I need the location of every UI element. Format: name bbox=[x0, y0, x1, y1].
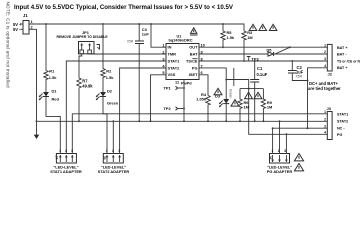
wire TMR net bbox=[90, 53, 166, 55]
wire J6 pin2 from bus bbox=[279, 121, 281, 153]
resistor R7 bbox=[77, 54, 93, 122]
connector J3 bbox=[324, 106, 348, 140]
capacitor C2 bbox=[288, 60, 309, 82]
wire STAT2 net bbox=[120, 68, 166, 154]
svg-text:1M: 1M bbox=[247, 35, 252, 40]
svg-text:1: 1 bbox=[271, 149, 273, 153]
wire VSS net bbox=[151, 75, 167, 122]
wire PwPd to bus bbox=[183, 80, 185, 122]
svg-text:3: 3 bbox=[324, 124, 326, 128]
svg-text:R2: R2 bbox=[106, 68, 112, 73]
svg-text:X5R: X5R bbox=[127, 39, 134, 43]
svg-text:1.05k: 1.05k bbox=[196, 96, 207, 101]
svg-text:PG: PG bbox=[192, 65, 198, 70]
svg-text:5V -: 5V - bbox=[13, 27, 21, 32]
svg-text:3: 3 bbox=[324, 57, 326, 61]
svg-text:Input 4.5V to 5.5VDC Typical,: Input 4.5V to 5.5VDC Typical, Consider T… bbox=[14, 4, 234, 11]
svg-text:R1: R1 bbox=[49, 68, 55, 73]
svg-text:STAT2: STAT2 bbox=[168, 65, 181, 70]
svg-text:PG ADAPTER: PG ADAPTER bbox=[267, 169, 293, 174]
header J4 bbox=[50, 149, 82, 174]
svg-text:1: 1 bbox=[59, 149, 61, 153]
ground bbox=[34, 121, 40, 139]
resistor R6 bbox=[238, 89, 250, 122]
svg-text:J5: J5 bbox=[102, 156, 106, 160]
svg-text:3: 3 bbox=[118, 149, 120, 153]
svg-text:bq2406xDRC: bq2406xDRC bbox=[169, 38, 193, 43]
svg-text:D5: D5 bbox=[267, 47, 273, 52]
svg-text:J3: J3 bbox=[327, 106, 332, 111]
svg-text:VSS: VSS bbox=[168, 72, 176, 77]
svg-text:1: 1 bbox=[324, 110, 326, 114]
svg-text:BAT +: BAT + bbox=[337, 66, 347, 70]
svg-text:D1: D1 bbox=[52, 89, 58, 94]
resistor R2 bbox=[101, 23, 114, 92]
wire ground bus bbox=[36, 120, 328, 122]
svg-text:3: 3 bbox=[71, 149, 73, 153]
wire D1 to J4 pin1 bbox=[46, 97, 60, 154]
svg-text:3: 3 bbox=[284, 149, 286, 153]
svg-text:2: 2 bbox=[112, 149, 114, 153]
svg-text:NOTE: C1 is optional and not i: NOTE: C1 is optional and not installed bbox=[6, 2, 11, 88]
wire STAT1 net bbox=[66, 61, 166, 154]
LED D3 bbox=[215, 80, 232, 122]
wire R6 R9 top link bbox=[240, 88, 263, 90]
capacitor C1 bbox=[250, 61, 267, 121]
svg-text:D3: D3 bbox=[215, 93, 221, 98]
resistor R5 bbox=[221, 24, 235, 47]
diode D5 bbox=[267, 46, 292, 56]
svg-text:4: 4 bbox=[324, 64, 326, 68]
svg-text:ISET: ISET bbox=[189, 72, 198, 77]
svg-text:C1: C1 bbox=[257, 66, 263, 71]
svg-text:J1: J1 bbox=[23, 13, 28, 18]
svg-text:PwPd: PwPd bbox=[181, 81, 192, 86]
svg-text:OUT: OUT bbox=[189, 45, 198, 50]
test point TP1 bbox=[164, 85, 186, 90]
wire top +5V rail bbox=[29, 23, 244, 31]
LED D1 bbox=[39, 89, 59, 102]
connector J2 bbox=[324, 44, 360, 77]
wire IN net bbox=[151, 24, 166, 47]
svg-text:IN: IN bbox=[168, 45, 172, 50]
svg-text:STAT1: STAT1 bbox=[168, 58, 181, 63]
svg-text:1M: 1M bbox=[267, 105, 272, 110]
svg-text:STAT2 ADAPTER: STAT2 ADAPTER bbox=[98, 169, 130, 174]
svg-text:PG: PG bbox=[337, 133, 342, 137]
svg-text:J2: J2 bbox=[328, 72, 333, 77]
wire NC net to J3 pin3 bbox=[272, 127, 328, 129]
test point TP3 bbox=[247, 56, 260, 61]
svg-text:Green: Green bbox=[107, 101, 119, 106]
wire D2 to J5 pin1 bbox=[103, 97, 107, 154]
svg-text:REMOVE JUMPER TO DISABLE: REMOVE JUMPER TO DISABLE bbox=[57, 35, 109, 39]
svg-text:2: 2 bbox=[324, 50, 326, 54]
wire STAT1 adapter line to J3 bbox=[72, 114, 327, 154]
svg-text:2: 2 bbox=[324, 118, 326, 122]
note DC+ and BAT+ bbox=[308, 81, 341, 91]
svg-text:Green: Green bbox=[228, 89, 232, 99]
wire ISET net bbox=[199, 75, 208, 96]
svg-text:NC -: NC - bbox=[337, 127, 345, 131]
wire J2 pin4 to J3 pin3 net bbox=[307, 68, 328, 129]
header J6 bbox=[267, 149, 293, 174]
resistor R9 bbox=[261, 89, 273, 122]
svg-text:STAT1 ADAPTER: STAT1 ADAPTER bbox=[50, 169, 82, 174]
test point TP2 bbox=[164, 106, 186, 111]
warning triangle right of D3 bbox=[231, 100, 239, 107]
svg-text:1: 1 bbox=[324, 44, 326, 48]
wire J1 pin2 to ground rail bbox=[29, 29, 37, 121]
wire J5 pin2 from bus bbox=[112, 121, 114, 153]
jumper JP1 bbox=[57, 30, 109, 54]
svg-text:TP1: TP1 bbox=[164, 85, 172, 90]
svg-text:2: 2 bbox=[65, 149, 67, 153]
wire BAT net bbox=[199, 53, 327, 55]
svg-text:BAT -: BAT - bbox=[337, 53, 347, 57]
svg-text:4: 4 bbox=[324, 131, 326, 135]
svg-text:BAT: BAT bbox=[190, 51, 198, 56]
wire stub near D3 bbox=[233, 68, 235, 86]
svg-text:TS or /CE or N: TS or /CE or N bbox=[337, 59, 360, 63]
capacitor C3 bbox=[127, 24, 149, 121]
wire J6 pin1 drop bbox=[272, 128, 274, 153]
warning triangle near R6 bbox=[245, 92, 253, 99]
warning triangles top right bbox=[249, 24, 277, 30]
svg-text:STAT2: STAT2 bbox=[337, 120, 348, 124]
warning triangles near J6 bbox=[294, 154, 303, 171]
wire J6 pin3 from PG bbox=[285, 134, 287, 153]
connector J1 bbox=[13, 13, 34, 34]
svg-text:1.5k: 1.5k bbox=[227, 35, 235, 40]
resistor R4 bbox=[196, 92, 210, 121]
svg-text:are tied together: are tied together bbox=[308, 86, 341, 91]
wire TS net to J2 pin3 bbox=[199, 60, 327, 62]
wire PG net bbox=[199, 68, 327, 135]
warning triangle near R9 bbox=[254, 92, 262, 99]
warning triangle near U1 bbox=[190, 28, 198, 35]
LED D2 bbox=[96, 89, 119, 106]
svg-text:TP2: TP2 bbox=[164, 106, 172, 111]
svg-text:STAT1: STAT1 bbox=[337, 112, 348, 116]
wire OUT net to J2 pin1 bbox=[199, 46, 327, 48]
svg-text:Red: Red bbox=[52, 96, 60, 101]
svg-text:1.5k: 1.5k bbox=[49, 75, 57, 80]
svg-text:1uF: 1uF bbox=[142, 32, 150, 37]
svg-text:49.9k: 49.9k bbox=[82, 84, 93, 89]
resistor R3 bbox=[242, 30, 253, 61]
side note (vertical): NOTE: C1 is optional bbox=[6, 2, 11, 88]
warning triangle above D3 bbox=[214, 88, 222, 95]
resistor R1 bbox=[44, 24, 57, 92]
svg-text:0.1uF: 0.1uF bbox=[257, 72, 268, 77]
op-amp U1 bq2406xDRC bbox=[162, 35, 205, 86]
svg-text:D2: D2 bbox=[107, 89, 113, 94]
title note text bbox=[14, 4, 234, 11]
svg-text:1: 1 bbox=[106, 149, 108, 153]
header J5 bbox=[98, 149, 130, 174]
svg-text:X5R: X5R bbox=[296, 75, 303, 79]
svg-text:1M: 1M bbox=[244, 105, 249, 110]
svg-text:1.5k: 1.5k bbox=[106, 75, 114, 80]
svg-text:2: 2 bbox=[278, 149, 280, 153]
svg-text:BAT +: BAT + bbox=[337, 46, 347, 50]
svg-text:TMR: TMR bbox=[168, 51, 177, 56]
